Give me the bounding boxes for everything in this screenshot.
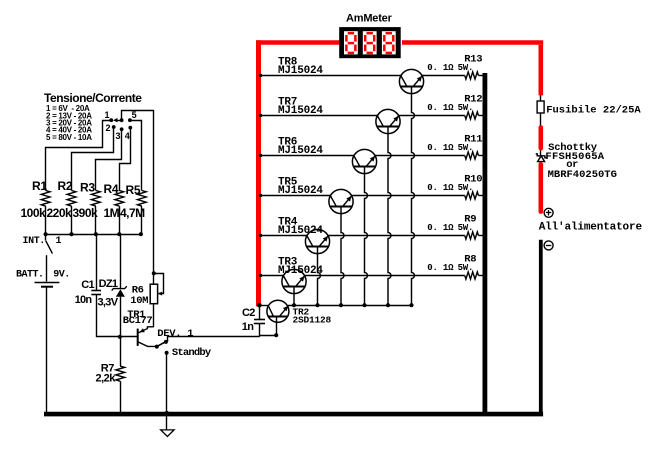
wire contact 5 to R5 xyxy=(130,121,142,191)
wire emitter TR4 xyxy=(328,235,465,237)
svg-text:R5: R5 xyxy=(126,183,141,197)
junction resistor bus 2 xyxy=(69,232,73,236)
transistor TR8 MJ15024 xyxy=(399,69,423,93)
svg-text:10M: 10M xyxy=(130,295,148,307)
junction resistor bus 4 xyxy=(117,232,121,236)
battery BATT 9V xyxy=(46,255,48,281)
svg-text:0. 1Ω: 0. 1Ω xyxy=(427,263,454,273)
junction red bus TR3 xyxy=(259,274,262,277)
transistor TR2 2SD1128 xyxy=(267,300,289,322)
rotary switch contact 2 xyxy=(112,125,116,129)
wire TR2 base xyxy=(259,335,276,337)
junction resistor bus 5 xyxy=(139,232,143,236)
junction red bus TR6 xyxy=(259,154,262,157)
svg-text:R8: R8 xyxy=(464,254,476,266)
wire emitter TR8 xyxy=(422,75,465,77)
svg-text:Tensione/Corrente: Tensione/Corrente xyxy=(44,91,142,105)
svg-text:1: 1 xyxy=(56,236,62,247)
svg-text:10n: 10n xyxy=(75,294,93,306)
resistor R10 0.1ohm 5W xyxy=(465,192,479,199)
svg-text:0. 1Ω: 0. 1Ω xyxy=(427,63,454,73)
svg-text:R13: R13 xyxy=(464,54,482,66)
wire contact 3 to R3 xyxy=(96,130,122,191)
transistor TR4 MJ15024 xyxy=(305,229,329,253)
rotary switch contact 5 xyxy=(128,118,132,122)
wire base TR4 down xyxy=(318,247,321,306)
wire emitter TR6 xyxy=(375,155,465,157)
rotary switch contact 4 xyxy=(128,126,132,130)
ground symbol xyxy=(166,416,168,430)
ammeter digit cell 2 xyxy=(363,31,377,54)
svg-text:390k: 390k xyxy=(73,206,99,220)
svg-text:5: 5 xyxy=(132,110,137,120)
svg-text:DEV. 1: DEV. 1 xyxy=(157,328,193,340)
svg-text:3: 3 xyxy=(116,131,121,141)
rotary switch wiper arrow xyxy=(120,118,124,122)
resistor R9 0.1ohm 5W xyxy=(465,232,479,239)
junction red bus TR7 xyxy=(259,114,262,117)
svg-text:Standby: Standby xyxy=(172,347,212,359)
svg-text:1: 1 xyxy=(105,110,110,120)
svg-text:All'alimentatore: All'alimentatore xyxy=(539,222,643,234)
junction base bus TR3 xyxy=(292,303,296,307)
schottky diode xyxy=(536,154,547,158)
svg-text:MJ15024: MJ15024 xyxy=(278,65,323,77)
svg-text:4,7M: 4,7M xyxy=(120,206,145,220)
junction base bus TR8 xyxy=(409,303,413,307)
svg-text:2: 2 xyxy=(106,123,111,133)
svg-text:2SD1128: 2SD1128 xyxy=(293,315,332,326)
wire red mid segment xyxy=(538,127,543,148)
wire resistor common bus xyxy=(46,234,141,236)
capacitor C2 1n xyxy=(259,305,261,319)
svg-text:R10: R10 xyxy=(464,174,482,186)
wire base row TR8 xyxy=(259,75,401,77)
svg-text:MJ15024: MJ15024 xyxy=(278,185,323,197)
junction base bus TR6 xyxy=(362,303,366,307)
transistor TR3 MJ15024 xyxy=(282,269,306,293)
wire emitter TR5 xyxy=(351,195,465,197)
svg-text:1M: 1M xyxy=(104,206,120,220)
resistor R5 4,7M xyxy=(137,191,146,207)
wire emitter TR7 xyxy=(398,115,465,117)
wire contact 2 to R2 xyxy=(72,128,114,191)
wire base row TR5 xyxy=(259,195,331,197)
ammeter digit 8 #1 xyxy=(348,32,354,35)
wire base TR8 down xyxy=(412,87,415,306)
switch INT.1 xyxy=(45,234,47,240)
wire contact 1 to R1 xyxy=(46,121,112,191)
junction resistor bus 3 xyxy=(94,232,98,236)
wire contact 4 to R4 xyxy=(120,128,131,191)
fuse Fusibile 22/25A xyxy=(537,101,544,113)
svg-text:AmMeter: AmMeter xyxy=(346,13,393,25)
wire emitter TR3 xyxy=(304,275,465,277)
zener diode DZ1 3,3V xyxy=(120,234,122,288)
resistor R4 1M xyxy=(115,191,124,207)
junction standby-ground xyxy=(165,411,170,416)
wire red lower segment xyxy=(538,164,543,211)
svg-text:3,3V: 3,3V xyxy=(98,296,119,308)
junction TR2 base xyxy=(274,333,278,337)
switch DEV.1 xyxy=(155,345,159,349)
resistor R3 390k xyxy=(91,191,100,207)
junction base bus TR7 xyxy=(386,303,390,307)
wire base row TR3 xyxy=(259,275,284,277)
transistor TR5 MJ15024 xyxy=(329,189,353,213)
resistor R2 220k xyxy=(67,191,76,207)
wire base row TR4 xyxy=(259,235,307,237)
svg-text:R3: R3 xyxy=(80,181,95,195)
junction TR1 base node xyxy=(118,335,122,339)
svg-text:INT.: INT. xyxy=(23,236,45,247)
junction red bus TR5 xyxy=(259,194,262,197)
svg-text:R4: R4 xyxy=(104,182,119,196)
ammeter box xyxy=(339,27,401,58)
resistor R7 2,2k xyxy=(120,337,122,366)
svg-text:0. 1Ω: 0. 1Ω xyxy=(427,223,454,233)
wire red top right xyxy=(402,40,543,45)
rotary switch contact 1 xyxy=(109,118,113,122)
wire red top left xyxy=(256,40,341,45)
junction red bus TR4 xyxy=(259,234,262,237)
wire base bus right xyxy=(288,305,412,307)
junction red bus TR8 xyxy=(259,74,262,77)
svg-text:1n: 1n xyxy=(242,321,254,333)
ammeter digit 8 #2 xyxy=(367,32,373,35)
transistor TR6 MJ15024 xyxy=(352,149,376,173)
junction red bus bottom xyxy=(257,303,262,308)
wire base TR7 down xyxy=(388,127,391,306)
svg-text:4: 4 xyxy=(125,131,130,141)
svg-text:2,2k: 2,2k xyxy=(96,373,117,385)
transistor TR1 BC177 xyxy=(137,329,139,346)
svg-text:C2: C2 xyxy=(242,307,255,319)
ammeter digit 8 #3 xyxy=(386,32,392,35)
junction resistor bus 1 xyxy=(44,232,48,236)
svg-text:5 = 80V - 10A: 5 = 80V - 10A xyxy=(46,133,92,142)
svg-text:MJ15024: MJ15024 xyxy=(278,225,323,237)
terminal minus xyxy=(544,241,553,250)
svg-text:R2: R2 xyxy=(58,179,73,193)
wire wiper common to R6 xyxy=(122,111,154,285)
wire base TR3 down xyxy=(293,287,295,306)
switch DEV.1 standby contact xyxy=(165,351,169,355)
svg-text:R11: R11 xyxy=(464,134,482,146)
wire red right column upper xyxy=(538,45,543,96)
svg-text:MJ15024: MJ15024 xyxy=(278,145,323,157)
svg-text:R1: R1 xyxy=(32,179,47,193)
ground bus bottom xyxy=(44,412,543,417)
svg-text:0. 1Ω: 0. 1Ω xyxy=(427,143,454,153)
transistor TR7 MJ15024 xyxy=(376,109,400,133)
junction base bus TR4 xyxy=(315,303,319,307)
ammeter digit cell 1 xyxy=(344,31,358,54)
svg-text:DZ1: DZ1 xyxy=(99,278,118,290)
resistor R1 100k xyxy=(41,191,50,207)
wire base row TR7 xyxy=(259,115,378,117)
svg-text:220k: 220k xyxy=(47,206,73,220)
svg-text:BC177: BC177 xyxy=(123,315,153,327)
trimmer R6 10M xyxy=(152,271,156,275)
svg-text:0. 1Ω: 0. 1Ω xyxy=(427,183,454,193)
svg-text:R12: R12 xyxy=(464,94,482,106)
svg-text:R9: R9 xyxy=(464,214,476,226)
terminal plus xyxy=(544,208,553,217)
svg-text:0. 1Ω: 0. 1Ω xyxy=(427,103,454,113)
wire emitter bus black xyxy=(482,73,487,414)
svg-text:C1: C1 xyxy=(81,279,94,291)
wire right column thin xyxy=(540,95,542,164)
resistor R11 0.1ohm 5W xyxy=(465,152,479,159)
svg-text:9V.: 9V. xyxy=(53,270,70,281)
rotary switch contact 3 xyxy=(120,127,124,131)
wire base row TR6 xyxy=(259,155,354,157)
wire red collector bus xyxy=(256,40,261,306)
wire base TR6 down xyxy=(365,167,368,306)
resistor R12 0.1ohm 5W xyxy=(465,112,479,119)
wire base TR5 down xyxy=(341,207,344,306)
resistor R13 0.1ohm 5W xyxy=(465,72,479,79)
capacitor C1 10n xyxy=(96,234,98,290)
ammeter digit cell 3 xyxy=(382,31,396,54)
svg-text:100k: 100k xyxy=(21,206,47,220)
resistor R8 0.1ohm 5W xyxy=(465,272,479,279)
junction base bus TR5 xyxy=(339,303,343,307)
wire base bus left xyxy=(259,305,268,307)
svg-text:MJ15024: MJ15024 xyxy=(278,105,323,117)
wire minus to ground bus xyxy=(539,240,543,414)
svg-text:Fusibile 22/25A: Fusibile 22/25A xyxy=(546,104,641,116)
svg-text:BATT.: BATT. xyxy=(16,270,44,281)
svg-text:MBRF40250TG: MBRF40250TG xyxy=(548,169,617,181)
